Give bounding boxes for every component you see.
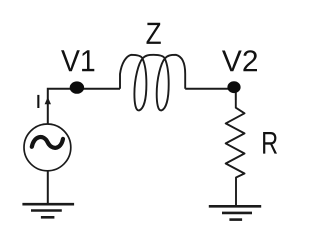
resistor R value label	[263, 132, 277, 154]
resistor R zigzag	[226, 100, 245, 206]
node V1 junction dot	[70, 81, 84, 93]
node V1 label	[61, 50, 94, 71]
current arrow head	[45, 97, 51, 104]
AC source V1 circle	[24, 124, 71, 171]
wire: source bottom to ground	[47, 171, 49, 204]
ground symbol (right)	[209, 206, 261, 219]
inductor Z value label	[147, 23, 161, 44]
node V2 label	[222, 50, 257, 71]
wire: inductor right to node V2 and down	[185, 89, 236, 100]
node V2 junction dot	[227, 81, 240, 93]
inductor Z coil	[120, 55, 185, 111]
AC source sine wave symbol	[32, 137, 63, 148]
current I label	[37, 95, 39, 108]
wire: left vertical and top-left horizontal run to inductor	[48, 89, 120, 124]
ground symbol (left)	[22, 204, 74, 217]
